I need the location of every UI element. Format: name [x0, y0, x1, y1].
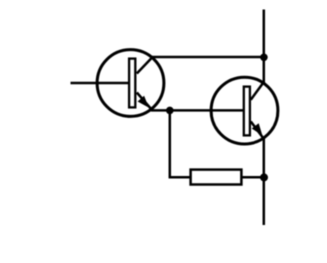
wire Q1 base lead: [71, 82, 129, 85]
wire junction down to resistor: [169, 110, 172, 177]
junction resistor rail node: [260, 173, 268, 181]
wire rail lower segment: [263, 139, 266, 226]
wire Q1 collector to rail: [152, 56, 264, 59]
junction emitter node: [166, 107, 174, 115]
wire resistor right lead: [242, 176, 264, 179]
resistor R1: [191, 170, 242, 185]
junction collector rail node: [260, 54, 268, 62]
wire rail upper segment: [263, 10, 266, 83]
wire resistor left lead: [169, 176, 191, 179]
transistor Q1: [97, 50, 164, 117]
wire Q1 emitter to Q2 base: [151, 109, 243, 112]
transistor Q2: [211, 77, 278, 144]
